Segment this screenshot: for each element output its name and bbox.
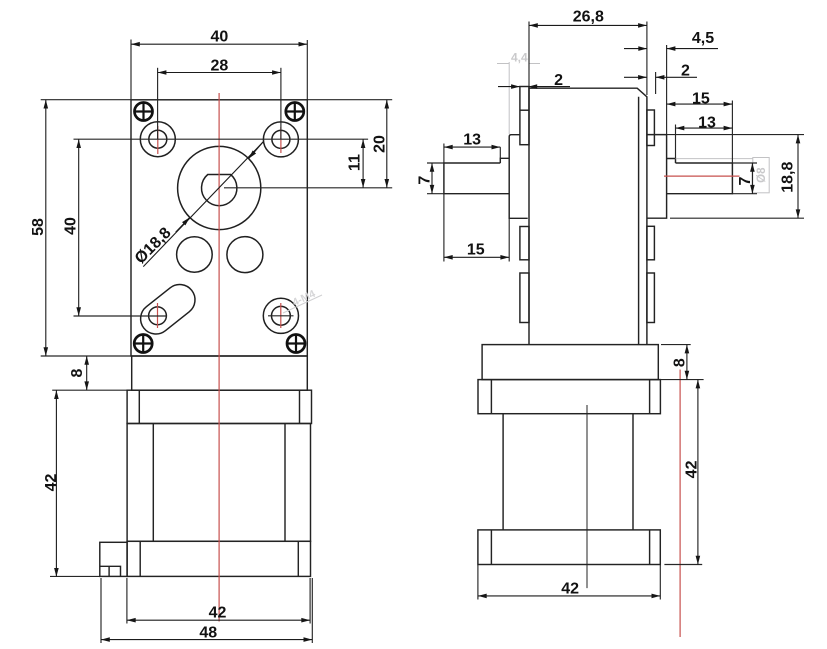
svg-text:7: 7: [416, 176, 433, 185]
svg-text:48: 48: [199, 625, 217, 642]
ext face top right: [307, 99, 392, 101]
right bearing collar: [647, 135, 667, 219]
motor mid body corner line right: [284, 424, 286, 542]
thin extension lines side: [427, 22, 804, 600]
dim line 15 right: [667, 103, 733, 105]
svg-text:11: 11: [346, 154, 363, 171]
dim 2 left tail right: [528, 86, 570, 88]
top-right mounting hole boss: [263, 122, 298, 157]
gray Ø8 ext top: [676, 158, 753, 160]
leader line Ø18.8: [143, 142, 263, 267]
motor bottom band chamfer line left: [139, 541, 141, 576]
screw top-left: [135, 103, 153, 121]
output shaft boss circle Ø18.8: [178, 146, 261, 229]
svg-text:15: 15: [467, 242, 485, 259]
dim line 40 top: [131, 43, 307, 45]
svg-text:8: 8: [671, 358, 688, 367]
ext 7 right bottom: [732, 193, 757, 195]
terminal tab divider: [108, 566, 110, 576]
dimensions side: [432, 25, 798, 596]
ext face bottom left: [41, 355, 132, 357]
left shaft boss: [509, 135, 528, 219]
dim line 40 vertical left: [78, 139, 80, 316]
gray ext 4,4 vertical: [508, 62, 510, 134]
dim 4,5 tail right: [667, 48, 718, 50]
svg-text:42: 42: [561, 580, 579, 597]
side gearbox bottom plate: [482, 345, 658, 380]
side bottom band chamfer right: [649, 530, 651, 565]
right cover bump low: [647, 273, 655, 323]
ext 15 right: [731, 101, 733, 164]
terminal tab inner line: [100, 566, 121, 576]
centerline tick bottom-right hole: [268, 315, 294, 317]
ext 28 right: [280, 68, 282, 140]
left cover bump low: [520, 273, 529, 323]
gearbox body profile: [529, 88, 647, 344]
output shaft centerline: [664, 175, 740, 177]
gray Ø8 frame: [753, 158, 769, 193]
svg-text:Ø8: Ø8: [756, 167, 768, 183]
svg-text:4,5: 4,5: [692, 30, 714, 47]
side bottom band chamfer left: [490, 530, 492, 565]
ext 42 side bottom left: [477, 565, 479, 600]
ext 42 bottom left: [126, 578, 128, 624]
svg-text:7: 7: [737, 176, 754, 185]
ext 42 bottom right: [309, 578, 311, 624]
dim line 42 side bottom: [478, 595, 660, 597]
svg-text:26,8: 26,8: [573, 9, 604, 26]
ext motor bottom left: [50, 575, 100, 577]
ext 48 bottom right: [311, 578, 313, 643]
svg-text:4,4: 4,4: [511, 51, 528, 65]
ext 26,8 right: [646, 22, 648, 96]
svg-text:Ø18,8: Ø18,8: [132, 224, 175, 267]
motor bottom band (front): [127, 541, 310, 576]
screw cross top-right: [286, 103, 304, 121]
svg-text:58: 58: [30, 218, 47, 236]
dim line 20 right: [386, 100, 388, 188]
screw cross top-left: [135, 103, 153, 121]
ext 42 side right bottom: [664, 564, 702, 566]
svg-text:13: 13: [698, 114, 716, 131]
centerline tick hole bottom-right: [280, 303, 282, 328]
dimension texts front: [30, 28, 388, 641]
dim 2 right tail right: [656, 76, 697, 78]
left cover bump divider: [520, 109, 529, 111]
body right inner edge: [638, 97, 640, 345]
svg-text:20: 20: [371, 135, 388, 153]
main vertical centerline: [218, 93, 220, 622]
centerline tick hole bottom-left: [157, 303, 159, 328]
ext 13 left a: [443, 144, 445, 164]
vertical red line right of motor: [679, 370, 681, 638]
screw top-right: [286, 103, 304, 121]
ext 26,8 left: [528, 22, 530, 87]
gear axle hole right: [227, 237, 263, 273]
svg-text:28: 28: [211, 57, 229, 74]
ext 7 right top: [732, 162, 757, 164]
dimensions front: [46, 44, 387, 639]
dim line 42 bottom: [127, 619, 310, 621]
dim line 13 right: [676, 127, 733, 129]
right cover bump top: [647, 110, 655, 146]
svg-text:42: 42: [209, 605, 227, 622]
leader arrow lower: [176, 217, 190, 232]
ext line from shaft center to right: [224, 187, 392, 189]
top-left mounting hole boss: [140, 122, 175, 157]
red centerlines side: [664, 176, 740, 637]
ext 2 right (bump): [655, 72, 657, 94]
bottom-left mounting hole: [149, 307, 167, 325]
dim 4,5 tail left: [624, 48, 647, 50]
ext 8 side top: [661, 344, 691, 346]
screw cross bottom-right: [287, 335, 305, 353]
dim line 42 vertical left: [55, 390, 57, 577]
red centerlines, front view: [158, 93, 281, 622]
thin extension / center lines front: [41, 40, 393, 644]
dim line 7 left: [431, 163, 433, 194]
ext 48 bottom left: [100, 578, 102, 643]
screw bottom-left: [134, 335, 152, 353]
top-right mounting hole: [272, 130, 290, 148]
ext face top left: [41, 99, 131, 101]
svg-text:4-M4: 4-M4: [291, 288, 318, 309]
motor mid body (front): [127, 424, 310, 542]
centerline tick hole top-right: [280, 127, 282, 153]
dim 2 left tail left: [498, 86, 520, 88]
ext 42 side bottom right: [659, 565, 661, 600]
output shaft Ø8 with flat: [202, 175, 237, 206]
bottom-right mounting hole boss: [263, 298, 298, 333]
svg-text:15: 15: [692, 90, 710, 107]
svg-text:13: 13: [463, 132, 481, 149]
side flange chamfer left: [490, 380, 492, 414]
ext 40 top left: [130, 40, 132, 100]
gearbox face outline: [131, 100, 307, 356]
ext 4,5 right (collar face): [666, 45, 668, 135]
ext 40 top right: [306, 40, 308, 100]
dim line 13 left: [444, 146, 500, 148]
ext 15 left b: [508, 218, 510, 261]
dim line 11 right: [362, 139, 364, 188]
centerline tick hole top-left: [157, 126, 159, 154]
motor axis line (black): [586, 405, 588, 588]
top-left mounting hole: [149, 130, 167, 148]
dim line 8 side: [686, 345, 688, 380]
dim line 7 right: [751, 163, 753, 194]
screw cross bottom-left: [134, 335, 152, 353]
leader arrow upper: [249, 142, 263, 159]
svg-text:40: 40: [62, 217, 79, 235]
svg-text:42: 42: [43, 474, 60, 492]
gray dim 4,4 line: [497, 63, 509, 65]
right cover bump mid: [647, 226, 655, 259]
svg-text:2: 2: [554, 72, 563, 89]
ext 13 left b: [499, 147, 501, 158]
right shaft ring: [667, 159, 676, 164]
svg-text:40: 40: [211, 28, 229, 45]
gear axle hole left: [177, 237, 213, 273]
ext 15 left a: [443, 194, 445, 262]
gearbox bottom plate (front): [132, 356, 308, 390]
side motor bottom band: [478, 530, 660, 565]
dim line 42 side right: [697, 380, 699, 565]
ext 18,8 top: [667, 134, 804, 136]
ext line through top holes: [74, 138, 369, 140]
ext 7 left bottom: [427, 193, 444, 195]
motor bottom band chamfer line right: [297, 541, 299, 576]
gray note leader: [283, 295, 322, 313]
wire terminal tab: [100, 542, 127, 576]
motor flange band (front): [127, 390, 311, 423]
dim line 26,8: [529, 24, 647, 26]
dim line 18,8: [797, 135, 799, 219]
ext flange top left: [52, 389, 127, 391]
motor mid body corner line left: [152, 424, 154, 542]
side motor flange band: [478, 380, 660, 414]
motor flange chamfer line right: [299, 390, 301, 423]
dim line 15 left: [444, 256, 509, 258]
bottom-left slot (obround): [141, 284, 195, 334]
ext 28 left: [157, 68, 159, 139]
right shaft (output): [667, 163, 733, 194]
svg-text:42: 42: [683, 460, 700, 478]
gray reference elements side: [497, 62, 769, 193]
dim line 8 left: [86, 356, 88, 390]
motor flange chamfer line left: [138, 390, 140, 423]
side flange chamfer right: [649, 380, 651, 414]
ext 18,8 bottom: [670, 217, 804, 219]
svg-text:2: 2: [681, 63, 690, 80]
dim 2 right tail left: [624, 76, 647, 78]
ext 13 right: [675, 125, 677, 159]
ext line through bottom-left hole: [74, 315, 168, 317]
left cover bump mid: [520, 227, 529, 260]
dim line 28 top: [158, 72, 281, 74]
left shaft (rear): [444, 163, 509, 194]
bottom-right mounting hole: [272, 306, 291, 325]
left shaft ring top: [500, 158, 509, 163]
dim line 48 bottom: [101, 639, 312, 641]
screw bottom-right: [287, 335, 305, 353]
dim line 58 left: [45, 100, 47, 356]
side motor mid body: [503, 414, 633, 530]
left cover bump top pair: [520, 87, 529, 145]
ext 7 left top: [427, 162, 444, 164]
ext 8 side bottom: [658, 379, 703, 381]
svg-text:8: 8: [69, 368, 86, 377]
dimension texts side: [416, 9, 796, 598]
svg-text:18,8: 18,8: [779, 162, 796, 193]
gray dim 4,4 tail: [529, 63, 541, 65]
